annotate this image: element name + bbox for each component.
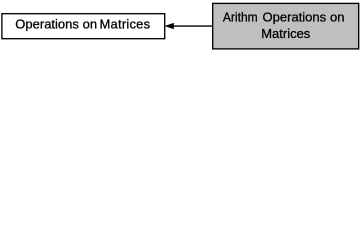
svg-text:Matrices: Matrices <box>261 26 311 41</box>
svg-text:on: on <box>330 9 344 24</box>
svg-text:Matrices: Matrices <box>100 16 151 31</box>
svg-text:Operations: Operations <box>263 9 327 24</box>
svg-text:on: on <box>83 16 97 31</box>
svg-text:Arithm: Arithm <box>223 9 258 24</box>
svg-text:Operations: Operations <box>15 16 79 31</box>
